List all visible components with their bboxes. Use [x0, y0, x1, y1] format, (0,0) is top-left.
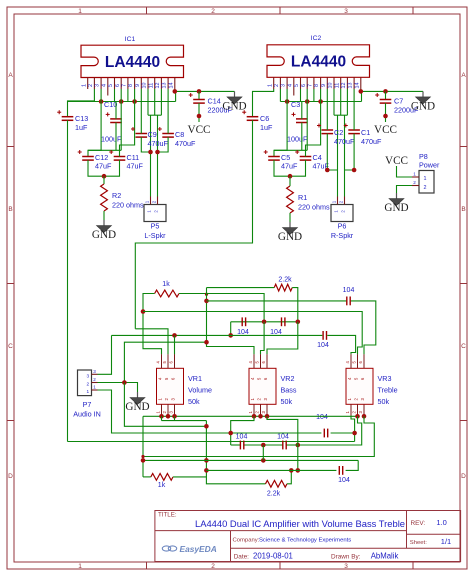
wire top cap pair — [231, 321, 262, 323]
wire C12 C11 bottoms to R2 — [88, 160, 120, 176]
svg-text:220 ohms: 220 ohms — [298, 203, 330, 212]
svg-text:Power: Power — [419, 161, 440, 170]
svg-text:8: 8 — [128, 84, 134, 87]
wire jog bar pins 10-12 — [148, 114, 161, 116]
wire IC1 pin8 down to C11 — [120, 89, 135, 157]
svg-text:Sheet:: Sheet: — [410, 540, 427, 546]
wire IC2 pin1 corner to C6 — [253, 89, 274, 117]
wire IC1 pin3 down to C12 — [88, 89, 101, 157]
svg-text:8: 8 — [314, 84, 320, 87]
capacitor C10 100uF — [110, 118, 122, 120]
wire speaker drops from bar — [150, 115, 152, 196]
ground GND right of C7 — [422, 91, 424, 97]
svg-text:VCC: VCC — [187, 124, 210, 136]
wire long line y460 — [143, 459, 358, 461]
wire C8 to P5 pin2 drop — [158, 137, 169, 152]
svg-text:3: 3 — [93, 369, 96, 374]
connector P5 L-Spkr — [144, 197, 166, 241]
svg-text:GND: GND — [278, 231, 302, 243]
capacitor C14 2200uF — [198, 91, 200, 99]
svg-text:1: 1 — [267, 84, 273, 87]
resistor 2.2k bottom — [266, 480, 288, 487]
junction under IC2 b — [305, 99, 310, 104]
svg-text:2019-08-01: 2019-08-01 — [253, 552, 293, 561]
wire rail corner up to pin14 net — [361, 91, 363, 101]
potentiometer VR1 Volume 50k — [156, 354, 212, 418]
svg-text:Drawn By:: Drawn By: — [331, 554, 361, 561]
svg-text:2: 2 — [87, 381, 90, 386]
op-amp IC U2 LA4440 (IC2) — [267, 35, 370, 77]
wire IC1 pin13 to C8 — [167, 89, 169, 134]
wire IC2 pin3 down to C5 — [274, 89, 287, 157]
svg-text:GND: GND — [125, 401, 149, 413]
wire C9 to P5 pin1 drop — [141, 137, 150, 152]
wire C14 bottom to VCC — [198, 103, 200, 122]
wire IC1 pin11 jog — [154, 89, 156, 115]
capacitor 104 mid-right top — [322, 331, 324, 340]
svg-text:50k: 50k — [281, 397, 293, 406]
svg-text:6: 6 — [115, 84, 121, 87]
svg-text:1k: 1k — [162, 281, 170, 288]
svg-text:3: 3 — [95, 84, 101, 87]
capacitor C5 47uF — [268, 156, 280, 158]
junction y460 mid cap tap — [261, 458, 266, 463]
capacitor 104 bottom-right — [338, 466, 340, 475]
ground GND under P8 — [396, 193, 398, 199]
wire mid tap down to y460 — [262, 445, 264, 460]
svg-text:C8: C8 — [175, 130, 184, 139]
wire 1k right lead — [179, 293, 207, 295]
capacitor 104 on P7pin1 line — [323, 429, 325, 438]
svg-text:D: D — [8, 473, 13, 480]
svg-text:1/1: 1/1 — [441, 537, 451, 546]
svg-text:A: A — [8, 72, 13, 79]
wire IC2 pins 2,5,7 to rail — [279, 89, 281, 102]
wire C10 top lead to rail — [115, 102, 117, 119]
svg-text:IC1: IC1 — [125, 36, 136, 43]
svg-text:B: B — [461, 206, 465, 213]
wire bottom cap pair row y445 — [231, 444, 241, 446]
svg-text:7: 7 — [308, 84, 314, 87]
wire IC2 pin6 down to join line — [306, 89, 308, 150]
svg-text:3: 3 — [344, 563, 348, 570]
resistor R1 220 ohms — [289, 176, 291, 186]
svg-text:C: C — [461, 343, 466, 350]
wire C1 to P6 pin2 drop — [345, 134, 355, 170]
junction C1 drop — [352, 168, 357, 173]
junction VR1 bottom pin — [159, 414, 164, 419]
junction under IC1 b — [119, 99, 124, 104]
wire P7 pin3 up — [98, 335, 112, 374]
junction top pair mid — [262, 320, 267, 325]
junction y342 right end — [204, 340, 209, 345]
svg-text:C3: C3 — [291, 100, 300, 109]
svg-text:C6: C6 — [260, 114, 269, 123]
junction VR3 pinC bottom — [362, 414, 367, 419]
wire C7 bottom to VCC — [385, 103, 387, 122]
wire long return line y441 to C13 vertical — [68, 441, 355, 443]
junction 1k-left line y311 — [141, 309, 146, 314]
svg-text:47uF: 47uF — [281, 162, 298, 171]
svg-text:470uF: 470uF — [175, 139, 196, 148]
svg-text:R2: R2 — [112, 191, 121, 200]
svg-text:1: 1 — [78, 563, 82, 570]
svg-text:470uF: 470uF — [361, 137, 382, 146]
svg-text:2: 2 — [93, 377, 96, 382]
svg-text:12: 12 — [155, 83, 161, 89]
wire speaker drops from bar IC2 — [337, 115, 339, 196]
ground GND right of C14 — [234, 91, 236, 97]
wire C3 top lead to rail — [301, 102, 303, 119]
junction capA-left on P7pin3 line — [228, 333, 233, 338]
capacitor 104 pair-B top — [281, 317, 283, 326]
svg-text:VCC: VCC — [385, 155, 408, 167]
svg-text:Date:: Date: — [234, 554, 249, 561]
svg-text:EasyEDA: EasyEDA — [180, 544, 217, 554]
svg-text:3: 3 — [281, 84, 287, 87]
svg-text:100uF: 100uF — [101, 135, 122, 144]
wire 2.2k right lead down to cap pair — [292, 288, 298, 322]
wire C10 bottom loop to C12 path — [115, 123, 117, 151]
svg-text:2: 2 — [274, 84, 280, 87]
svg-text:14: 14 — [168, 83, 174, 89]
wire rail under IC1 — [68, 101, 176, 103]
svg-text:1.0: 1.0 — [436, 518, 446, 527]
junction y445 right end — [296, 443, 301, 448]
junction 206 at y470 — [204, 468, 209, 473]
svg-text:13: 13 — [162, 83, 168, 89]
junction R1 top — [288, 174, 293, 179]
wire top pair left corner down — [230, 322, 232, 336]
junction VR1 pinC tap — [172, 333, 177, 338]
svg-text:12: 12 — [341, 83, 347, 89]
title block — [155, 511, 461, 562]
svg-text:2: 2 — [211, 8, 215, 15]
junction 2.2k-up on y470 line — [289, 468, 294, 473]
svg-text:4: 4 — [287, 84, 293, 87]
wire IC1 pin12 jog — [160, 89, 162, 115]
junction VR1 bottom pin — [172, 414, 177, 419]
wire IC2 pin10 jog — [333, 89, 335, 115]
junction VR1 bottom pin — [166, 414, 171, 419]
wire y416 left corner down — [142, 416, 144, 477]
wire P8 pin2 to ground — [397, 186, 413, 194]
svg-text:1uF: 1uF — [75, 123, 88, 132]
wire rail under IC2 — [280, 101, 361, 103]
svg-text:2.2k: 2.2k — [267, 491, 281, 498]
svg-text:104: 104 — [317, 342, 329, 349]
svg-text:1uF: 1uF — [260, 123, 273, 132]
wire P7 pin2 branch up and right y342 — [124, 342, 206, 382]
svg-text:Company:: Company: — [233, 538, 260, 544]
wire VR2 pinA down to bottom cap pair — [231, 416, 254, 445]
junction under IC2 a — [285, 99, 290, 104]
junction 206 at y460 — [204, 458, 209, 463]
svg-text:LA4440: LA4440 — [105, 54, 160, 71]
wire y470 line with 104 cap — [206, 469, 336, 471]
wire vertical 206.5 from 2.2k row down to VR2 pinA — [207, 288, 255, 355]
capacitor C2 470uF — [322, 129, 334, 131]
svg-text:C10: C10 — [104, 100, 117, 109]
junction under IC1 a — [99, 99, 104, 104]
svg-text:9: 9 — [321, 84, 327, 87]
wire P7 pin1 down and right y432 — [98, 390, 322, 433]
svg-text:2: 2 — [211, 563, 215, 570]
junction R2 top — [102, 174, 107, 179]
wire P7 pin3 long line y335 with 104 to VR3 pinA — [112, 334, 323, 336]
junction y456 left end — [141, 455, 144, 458]
capacitor C11 47uF — [114, 156, 126, 158]
junction VR2 bottom pin — [265, 414, 270, 419]
svg-text:7: 7 — [122, 84, 128, 87]
wire VR3 pinB bottom jog down to y445 line — [298, 416, 362, 445]
svg-text:GND: GND — [92, 229, 116, 241]
IC1 pins 1-14 — [81, 78, 175, 96]
wire cap row y301 to 104 and VR3 pinC — [207, 300, 347, 302]
svg-text:C13: C13 — [75, 114, 88, 123]
junction 1k right — [205, 293, 208, 296]
wire C3 bottom loop — [301, 123, 303, 151]
capacitor C1 470uF — [348, 129, 360, 131]
svg-text:IC2: IC2 — [311, 35, 322, 42]
svg-text:10: 10 — [142, 83, 148, 89]
svg-text:Science & Technology Experimen: Science & Technology Experiments — [259, 538, 351, 544]
junction VR3 pinB bottom — [355, 414, 360, 419]
resistor 1k top — [155, 290, 179, 297]
svg-text:A: A — [461, 72, 466, 79]
svg-text:3: 3 — [344, 8, 348, 15]
svg-text:C14: C14 — [208, 97, 221, 106]
svg-text:C1: C1 — [361, 128, 370, 137]
wire C2 to P6 pin1 drop — [327, 134, 337, 170]
svg-text:P6: P6 — [338, 222, 347, 231]
ground GND near P7 — [137, 392, 139, 398]
svg-text:47uF: 47uF — [95, 162, 112, 171]
svg-text:C2: C2 — [334, 128, 343, 137]
svg-text:C: C — [8, 343, 13, 350]
svg-text:VR3: VR3 — [378, 374, 392, 383]
svg-text:1: 1 — [93, 385, 96, 390]
connector P6 R-Spkr — [331, 197, 354, 241]
connector P8 Power — [412, 152, 440, 193]
wire VR3 pinA bottom down to long return line — [351, 416, 355, 442]
svg-text:Bass: Bass — [281, 385, 297, 394]
wire 1k-row extension to top cap-pair mid — [207, 294, 265, 322]
svg-text:C9: C9 — [148, 130, 157, 139]
wire mid dot down to VR2 pinB — [261, 322, 265, 355]
junction pinC drop at y470 — [296, 468, 301, 473]
svg-text:GND: GND — [411, 100, 435, 112]
svg-text:104: 104 — [236, 434, 248, 441]
wire IC2 pin12 jog — [346, 89, 348, 115]
svg-text:104: 104 — [277, 434, 289, 441]
junction P7 pin2 — [122, 380, 127, 385]
svg-text:1k: 1k — [158, 482, 166, 489]
wire IC2 pin14 rail right — [361, 89, 423, 91]
wire long feed from C6 to VR1 pinB — [135, 329, 168, 355]
wire y426 GND line from P7 pin2 vertical — [124, 383, 206, 427]
svg-text:P5: P5 — [151, 222, 160, 231]
svg-text:VR2: VR2 — [281, 374, 295, 383]
junction VR2 bottom pin — [258, 414, 263, 419]
svg-text:VCC: VCC — [374, 124, 397, 136]
wire IC1 pins 2,5,7 to rail — [93, 89, 95, 102]
capacitor C7 2200uF — [385, 91, 387, 99]
ground GND under R1 — [289, 222, 291, 228]
wire rail corner up to pin14 net — [175, 91, 177, 101]
capacitor 104 pair-A bottom — [239, 441, 241, 450]
svg-text:470uF: 470uF — [148, 139, 169, 148]
wire VCC to P8 pin1 — [397, 166, 413, 177]
wire VR1 pinC up to y335 line — [174, 335, 176, 354]
svg-text:10: 10 — [328, 83, 334, 89]
capacitor 104 pair-B bottom — [282, 441, 284, 450]
svg-text:11: 11 — [148, 83, 154, 89]
wire 2.2k row left — [207, 287, 275, 289]
svg-text:GND: GND — [384, 202, 408, 214]
wire 1k left lead down — [143, 294, 162, 355]
svg-text:1: 1 — [413, 172, 416, 177]
svg-text:1: 1 — [424, 176, 427, 182]
svg-text:Volume: Volume — [188, 385, 212, 394]
svg-text:D: D — [461, 473, 466, 480]
wire IC1 pin6 down to join line — [120, 89, 122, 150]
wire right dot down to VR2 pinC — [267, 322, 298, 355]
capacitor 104 top-right — [346, 297, 348, 306]
wire IC1 pin2 corner to C13 — [68, 101, 95, 117]
wire C12-C10 join — [88, 149, 121, 151]
svg-text:AbMalik: AbMalik — [371, 552, 399, 561]
junction top pair right — [296, 320, 301, 325]
svg-text:4: 4 — [101, 84, 107, 87]
wire 1k bottom leads — [143, 476, 151, 478]
wire IC2 pin8 down to C4 — [306, 89, 321, 157]
junction C14 bottom — [197, 114, 202, 119]
resistor 1k bottom — [151, 474, 173, 481]
svg-text:6: 6 — [301, 84, 307, 87]
svg-text:1: 1 — [81, 84, 87, 87]
svg-text:2: 2 — [413, 180, 416, 185]
svg-text:GND: GND — [222, 100, 246, 112]
junction C2 drop — [325, 168, 330, 173]
wire R2 to ground — [103, 211, 105, 220]
wire C13 down long left vertical to VR3 pinA bottom line — [67, 120, 69, 441]
svg-text:5: 5 — [294, 84, 300, 87]
wire IC2 pin13 to C1 — [353, 89, 355, 130]
junction under IC1 c — [132, 99, 137, 104]
svg-text:2: 2 — [424, 185, 427, 191]
svg-text:47uF: 47uF — [127, 162, 144, 171]
wire R1 to ground — [289, 213, 291, 222]
svg-text:2.2k: 2.2k — [278, 277, 292, 284]
svg-text:220 ohms: 220 ohms — [112, 201, 144, 210]
svg-text:LA4440 Dual IC Amplifier with: LA4440 Dual IC Amplifier with Volume Bas… — [195, 518, 405, 529]
resistor R2 220 ohms — [103, 176, 105, 184]
svg-text:VR1: VR1 — [188, 374, 202, 383]
junction pin14 corner — [173, 89, 178, 94]
svg-text:B: B — [8, 206, 12, 213]
capacitor C9 470uF — [136, 133, 148, 135]
svg-text:13: 13 — [348, 83, 354, 89]
wire VR3 pinC bottom jog to y456 line — [143, 416, 374, 456]
wire bottom bus y416 — [143, 415, 358, 417]
svg-text:P7: P7 — [83, 400, 92, 409]
svg-text:1: 1 — [87, 389, 90, 394]
junction C9 drop — [148, 150, 153, 155]
op-amp IC U1 LA4440 (IC1) — [81, 36, 184, 78]
wire C6 down to tone network feed — [135, 120, 252, 328]
capacitor C4 47uF — [300, 156, 312, 158]
svg-text:TITLE:: TITLE: — [158, 512, 177, 519]
wire VR1 pinA pinC link down to y420 — [161, 416, 163, 420]
svg-text:1: 1 — [78, 8, 82, 15]
svg-text:50k: 50k — [188, 397, 200, 406]
ground GND under R2 — [103, 220, 105, 226]
svg-text:100uF: 100uF — [287, 135, 308, 144]
junction 104 line meets VR3 pinA vertical — [352, 431, 357, 436]
svg-text:Treble: Treble — [378, 385, 398, 394]
svg-text:14: 14 — [354, 83, 360, 89]
junction VR2 bottom pin — [252, 414, 257, 419]
wire IC1 pin9 to C9 — [140, 89, 142, 134]
potentiometer VR2 Bass 50k — [248, 354, 297, 418]
junction gnd line end — [204, 424, 209, 429]
wire vertical 206 gnd branch — [206, 421, 265, 484]
junction cap-row left — [204, 299, 209, 304]
wire P7 pin2 to GND — [98, 383, 138, 393]
svg-text:L-Spkr: L-Spkr — [144, 231, 166, 240]
svg-text:Audio IN: Audio IN — [73, 410, 101, 419]
junction C14 top — [197, 89, 202, 94]
wire jog bar IC2 pins 10-12 — [334, 114, 347, 116]
junction under IC2 c — [318, 99, 323, 104]
wire long line y311 to VR3 pinB — [143, 312, 362, 355]
capacitor C8 470uF — [162, 133, 174, 135]
junction y460 left — [141, 458, 146, 463]
EasyEDA logo — [162, 544, 216, 554]
svg-text:104: 104 — [343, 287, 355, 294]
svg-text:11: 11 — [334, 83, 340, 89]
svg-text:LA4440: LA4440 — [291, 54, 346, 71]
junction C7 top — [383, 89, 388, 94]
svg-text:3: 3 — [87, 373, 90, 378]
capacitor C3 100uF — [296, 118, 308, 120]
capacitor C6 1uF — [247, 116, 259, 118]
connector P7 Audio IN — [73, 369, 101, 419]
junction y433 line at VR2 pinA drop — [228, 431, 233, 436]
junction C8 drop — [155, 150, 160, 155]
wire C5 C4 bottoms to R1 — [274, 160, 306, 176]
wire 2.2k bottom right lead up — [287, 470, 291, 483]
capacitor C13 1uF — [62, 116, 74, 118]
resistor 2.2k top — [274, 284, 292, 291]
junction C7 bottom — [383, 114, 388, 119]
IC2 pins 1-14 — [267, 77, 361, 95]
svg-text:470uF: 470uF — [334, 137, 355, 146]
svg-text:R1: R1 — [298, 193, 307, 202]
junction pin14b corner — [359, 89, 364, 94]
wire VR2 pinC drop to y470 line — [267, 416, 298, 470]
wire IC2 pin9 to C2 — [326, 89, 328, 130]
svg-text:2: 2 — [88, 84, 94, 87]
svg-text:104: 104 — [316, 414, 328, 421]
junction bottom pair mid — [261, 443, 266, 448]
svg-text:C7: C7 — [394, 97, 403, 106]
wire IC2 pin11 jog — [340, 89, 342, 115]
wire IC1 pin14 rail right — [175, 89, 235, 91]
wire IC1 pin10 jog — [147, 89, 149, 115]
svg-text:5: 5 — [108, 84, 114, 87]
